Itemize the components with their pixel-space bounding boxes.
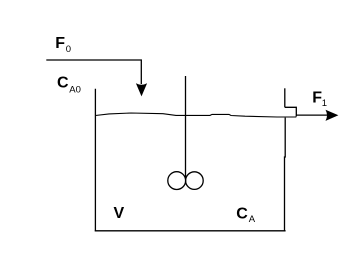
tank bottom: [95, 230, 286, 232]
outlet arrowhead: [326, 110, 339, 121]
svg-text:A0: A0: [69, 85, 81, 96]
tank left wall: [94, 89, 96, 232]
svg-text:V: V: [114, 205, 125, 222]
stirrer shaft: [185, 76, 187, 179]
svg-text:F: F: [312, 89, 322, 106]
tank right wall upper: [284, 88, 286, 107]
impeller right circle: [186, 172, 204, 190]
liquid surface line: [95, 113, 296, 117]
inlet feed line F0: [46, 60, 141, 84]
tank right wall lower: [284, 118, 287, 232]
svg-text:F: F: [55, 35, 65, 52]
svg-text:A: A: [249, 214, 256, 225]
svg-text:C: C: [57, 75, 69, 92]
outlet weir step: [285, 107, 297, 116]
svg-text:0: 0: [66, 44, 71, 55]
outlet flow line F1: [296, 114, 330, 116]
inlet arrowhead: [136, 83, 147, 96]
svg-text:1: 1: [322, 98, 327, 109]
svg-text:C: C: [236, 205, 248, 222]
impeller left circle: [168, 172, 186, 190]
